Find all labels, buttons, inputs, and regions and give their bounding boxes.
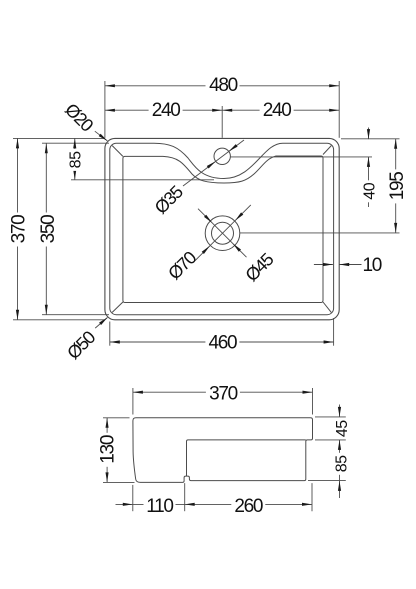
svg-text:480: 480 [209,75,238,96]
svg-text:240: 240 [263,100,292,121]
svg-text:130: 130 [97,435,118,464]
svg-text:Ø70: Ø70 [164,247,200,283]
dimension line 240 left [105,109,222,111]
tap hole circle (diam 35) [214,148,230,164]
corner slope line top-right [323,146,331,155]
dimension line 110 [133,503,185,505]
bowl floor contour with wave [123,156,323,303]
ext line centre for 240 dims [221,106,223,138]
ext line notch to 110/260 dims [184,483,186,511]
svg-text:370: 370 [209,384,238,405]
ext line bowl right to 460 dim [333,318,335,346]
drain inner circle (diam 45) [212,222,234,244]
dimension line 480 [105,85,339,87]
svg-text:10: 10 [363,255,382,276]
dimension line 40 lower tail [368,157,370,207]
leader line diam 45 through drain [198,209,247,258]
dimension line 110 outer tail [116,503,133,505]
ext line side left to 370 dim [132,388,134,415]
svg-text:85: 85 [333,455,350,472]
dimension line 85 right lower tail [339,481,341,498]
ext line side top right to 45 dim [315,416,346,418]
leader line for diam 20 corner radius [95,131,108,141]
ext line left edge up to 480 dim [104,81,106,138]
svg-text:85: 85 [67,151,84,168]
dimension line 40 upper tail [368,128,370,140]
side section bowl cavity line [187,440,306,476]
svg-text:370: 370 [8,215,29,244]
ext line wave valley for 85 dim [71,179,214,181]
dimension line 10 outer tail [339,264,361,266]
svg-text:Ø45: Ø45 [241,249,277,285]
ext line rim underside to 45/85 dims [315,439,346,441]
svg-text:40: 40 [362,182,379,199]
dimension line 130 [106,418,108,483]
dimension line 85 left [74,138,76,179]
leader line diam 70 through drain [193,205,251,263]
dimension line 260 [185,503,312,505]
svg-text:Ø35: Ø35 [151,181,187,217]
dimension line 370 side [133,391,313,393]
leader line for diam 50 corner radius [95,318,107,329]
ext line side left to 110 dim [132,485,134,511]
dimension line 10 inner tail [314,264,333,266]
svg-text:460: 460 [208,332,237,353]
svg-text:350: 350 [38,215,59,244]
corner slope line top-left [112,146,123,157]
ext line top edge right to 195 dim [341,138,400,140]
dimension line 195 [395,139,397,233]
drain outer circle (diam 70) [205,216,240,251]
dimension line 85 right [339,440,341,481]
svg-text:Ø20: Ø20 [61,99,97,135]
svg-text:110: 110 [146,496,173,517]
ext line side top to 130 dim [103,417,130,419]
ext line side right to 370 dim [312,388,314,415]
ext line outer top edge to 370 dim [13,137,104,139]
dimension line 45 upper tail [339,405,341,417]
dimension line 460 [110,341,334,343]
ext line tap hole centre to 40 dim [231,156,372,158]
ext line drain centre to 195 dim [240,232,400,234]
ext line right edge up to 480 dim [338,81,340,138]
basin outer rim outline (480x370) [105,138,339,319]
svg-text:260: 260 [234,496,263,517]
corner slope line bottom-right [323,302,331,312]
svg-text:Ø50: Ø50 [63,327,99,363]
corner slope line bottom-left [112,302,123,312]
dimension line 370 left [17,138,19,319]
ext line outer bottom edge to 370 dim [13,319,104,321]
side section outline (370 wide, 130 high) [133,418,313,483]
ext line bowl left to 460 dim [109,322,111,346]
ext line side right to 260 dim [311,483,313,511]
dimension line 350 [45,143,47,315]
ext line bowl bottom edge to 350 dim [42,314,109,316]
svg-text:45: 45 [334,420,351,437]
ext line side bottom right to 85 dim [308,480,346,482]
svg-text:195: 195 [387,172,408,201]
bowl rim outline with tap-ledge wave (460x350) [110,143,334,315]
leader line diam 35 through tap hole [183,140,244,186]
ext line bowl top edge to 350 dim [42,142,109,144]
dimension line 240 right [222,109,339,111]
ext line side bottom to 130 dim [103,481,135,483]
svg-text:240: 240 [152,100,181,121]
